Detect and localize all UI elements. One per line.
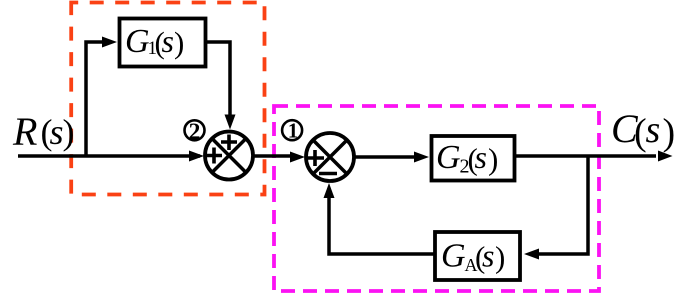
svg-text:): ) <box>663 112 676 154</box>
wire G2 to output C(s) <box>516 154 657 158</box>
summing junction 2 (circle with X, + top, + left) <box>205 132 253 180</box>
arrow into summer 2 left <box>189 151 204 162</box>
arrow into G1 left <box>102 37 117 48</box>
label circled 1 <box>282 119 302 143</box>
arrow into G2 left <box>414 152 429 163</box>
arrow up into summer 1 bottom <box>324 183 335 198</box>
label R(s) <box>12 109 75 154</box>
label circled 2 <box>185 119 205 145</box>
block G2 <box>432 136 515 181</box>
wire R(s) input to summer 2 <box>18 154 200 158</box>
arrow into summer 1 left <box>290 152 305 163</box>
svg-text:G: G <box>125 23 150 60</box>
wire summer2 to summer1 <box>253 154 290 158</box>
label C(s) <box>611 106 675 154</box>
svg-text:s: s <box>162 23 174 59</box>
svg-text:G: G <box>436 139 461 176</box>
wire feedback takeoff down and left to GA <box>539 156 588 254</box>
red dashed subsystem box (inner loop around G1 and summer 2) <box>71 3 264 195</box>
svg-text:): ) <box>63 112 75 152</box>
svg-text:s: s <box>50 112 64 152</box>
wire GA output left and up to summer1 bottom <box>329 198 435 254</box>
block GA <box>435 232 520 280</box>
magenta dashed subsystem box (feedback loop around G2 and GA) <box>274 106 599 291</box>
wire branch up to G1 <box>86 42 103 156</box>
svg-text:R: R <box>12 109 37 154</box>
svg-text:): ) <box>495 240 505 275</box>
svg-text:): ) <box>174 25 184 60</box>
wire summer1 to G2 <box>354 155 415 159</box>
svg-text:): ) <box>488 142 498 177</box>
svg-text:s: s <box>646 109 661 151</box>
arrow into summer 2 top <box>225 115 236 130</box>
block G1 <box>120 19 206 67</box>
summing junction 1 (circle with X, + left, - bottom) <box>306 133 354 181</box>
wire G1 output down to summer 2 top <box>206 42 231 115</box>
arrow into GA right <box>524 249 539 260</box>
svg-text:2: 2 <box>189 119 201 145</box>
svg-text:s: s <box>482 238 494 274</box>
svg-text:G: G <box>441 238 466 275</box>
svg-text:1: 1 <box>288 119 299 143</box>
svg-text:s: s <box>475 139 487 175</box>
output arrowhead <box>658 151 673 162</box>
